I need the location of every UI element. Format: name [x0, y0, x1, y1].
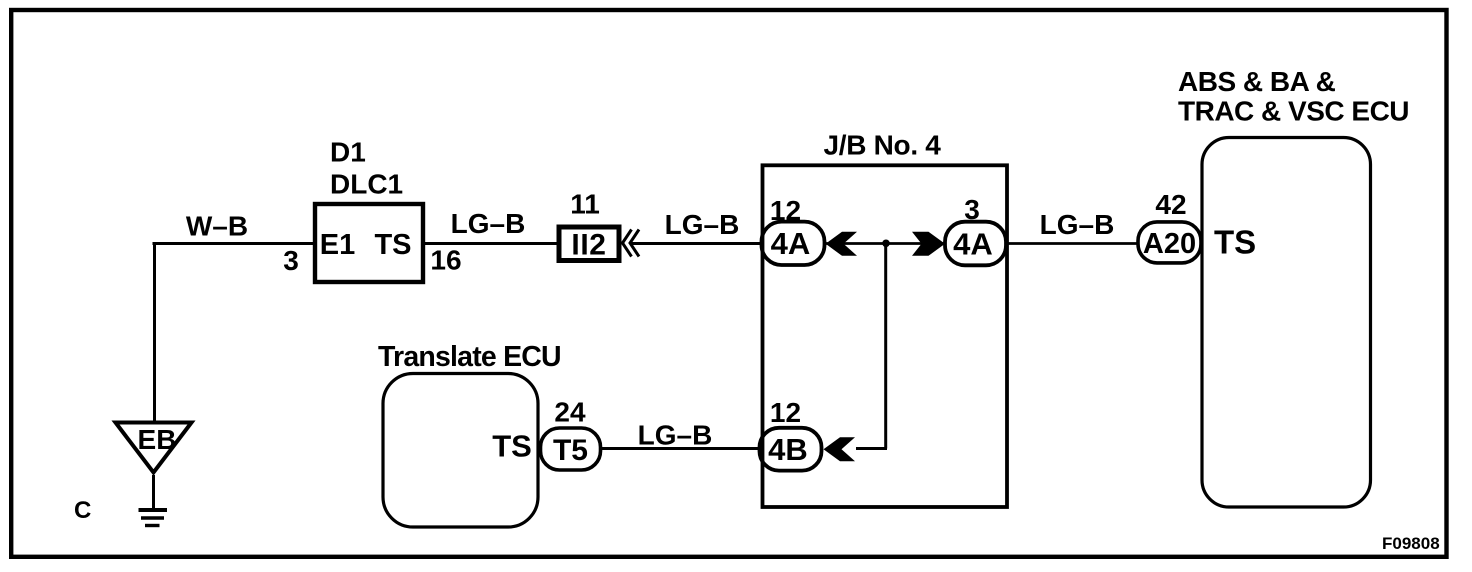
wire T5 to 4B	[600, 447, 761, 450]
arrow into 4B	[824, 437, 856, 461]
pin 12 of 4B	[770, 397, 801, 428]
label LG-B 3	[1040, 209, 1115, 240]
svg-text:II2: II2	[571, 229, 606, 262]
ground symbol	[139, 510, 168, 526]
wire W-B horizontal	[153, 242, 316, 245]
svg-text:16: 16	[430, 245, 461, 276]
svg-text:A20: A20	[1143, 228, 1196, 260]
svg-text:EB: EB	[138, 424, 177, 455]
node C	[74, 497, 91, 524]
svg-text:4B: 4B	[768, 432, 808, 467]
svg-text:LG–B: LG–B	[638, 420, 713, 451]
label W-B	[186, 211, 248, 242]
pin 11 of II2	[570, 189, 600, 220]
wire junction dot down	[884, 244, 887, 449]
pin 12 of 4A left	[770, 195, 801, 226]
label LG-B 1	[451, 208, 526, 239]
svg-text:LG–B: LG–B	[1040, 209, 1115, 240]
wire DLC1 to II2	[423, 242, 558, 245]
connector T5	[541, 428, 601, 470]
svg-text:LG–B: LG–B	[665, 209, 740, 240]
svg-text:42: 42	[1155, 189, 1186, 220]
arrow into 4A left	[826, 232, 857, 256]
svg-text:TS: TS	[492, 429, 532, 464]
svg-text:F09808: F09808	[1382, 534, 1440, 553]
svg-text:T5: T5	[553, 434, 588, 467]
svg-text:Translate ECU: Translate ECU	[378, 341, 561, 373]
label D1 DLC1	[330, 137, 403, 200]
wire vertical to ground	[153, 242, 156, 421]
pin 42 of A20	[1155, 189, 1186, 220]
svg-text:J/B No. 4: J/B No. 4	[823, 130, 941, 161]
connector 4A left	[762, 222, 825, 265]
pin 24 of T5	[554, 397, 586, 428]
svg-text:11: 11	[570, 189, 600, 220]
wire II2 to J/B	[630, 242, 763, 245]
svg-text:4A: 4A	[771, 226, 811, 261]
svg-text:LG–B: LG–B	[451, 208, 526, 239]
svg-text:DLC1: DLC1	[330, 169, 403, 200]
svg-text:C: C	[74, 497, 91, 524]
svg-text:ABS & BA &: ABS & BA &	[1178, 66, 1336, 97]
pin 3 of 4A right	[964, 194, 980, 225]
pin 16 of DLC1	[430, 245, 461, 276]
svg-text:E1: E1	[320, 229, 355, 261]
pin 3 of DLC1	[283, 245, 299, 276]
svg-text:TS: TS	[374, 229, 411, 261]
svg-text:TRAC & VSC ECU: TRAC & VSC ECU	[1178, 96, 1409, 127]
inline connector chevron	[623, 230, 640, 257]
svg-text:TS: TS	[1214, 224, 1256, 261]
ECU ABS BA TRAC VSC (TS)	[1202, 138, 1371, 508]
arrow into 4A right	[912, 232, 945, 256]
ground EB triangle	[116, 423, 192, 473]
wire J/B to A20	[1006, 242, 1140, 245]
connector 4A right	[945, 222, 1006, 266]
svg-text:W–B: W–B	[186, 211, 248, 242]
wire from EB apex to ground	[152, 475, 155, 508]
wire inside J/B top	[824, 242, 945, 245]
svg-text:4A: 4A	[953, 227, 993, 262]
connector D1 DLC1	[315, 204, 423, 282]
label Translate ECU	[378, 341, 561, 373]
label ABS & BA & TRAC & VSC ECU	[1178, 66, 1409, 127]
svg-text:D1: D1	[330, 137, 366, 168]
svg-text:12: 12	[770, 397, 801, 428]
label LG-B 4	[638, 420, 713, 451]
label LG-B 2	[665, 209, 740, 240]
svg-text:3: 3	[283, 245, 299, 276]
ECU Translate (TS)	[383, 374, 538, 528]
wire to 4B arrow	[856, 447, 887, 450]
connector A20	[1138, 222, 1201, 263]
junction box J/B No. 4	[763, 130, 1008, 508]
label F09808	[1382, 534, 1440, 553]
junction dot	[882, 240, 890, 248]
svg-text:24: 24	[554, 397, 586, 428]
connector 4B	[760, 428, 822, 471]
connector II2	[559, 227, 619, 262]
